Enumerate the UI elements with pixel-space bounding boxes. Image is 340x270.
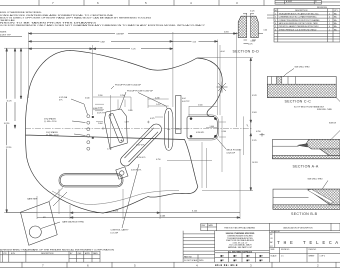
section C-C leader	[283, 69, 294, 78]
lower-left long rout	[59, 174, 123, 187]
title: THE TELECASTER	[277, 240, 340, 246]
section A-A top right text	[329, 123, 337, 125]
dimension: overall length (DIM REF)	[29, 33, 237, 35]
svg-text:7: 7	[52, 1, 54, 5]
svg-text:1: 1	[329, 20, 330, 22]
svg-text:2.500: 2.500	[198, 104, 203, 106]
svg-text:6: 6	[275, 29, 276, 31]
section C-C corner arrow	[336, 98, 340, 102]
svg-text:CORNERED BODY EL CU PAINT FINI: CORNERED BODY EL CU PAINT FINISH MILL	[279, 16, 317, 19]
svg-text:3.125: 3.125	[192, 211, 198, 213]
svg-text:3: 3	[275, 20, 276, 22]
svg-text:SHEET: SHEET	[309, 256, 316, 258]
svg-text:@ .430 = 2.150: @ .430 = 2.150	[44, 121, 56, 123]
section A-A leader	[329, 131, 340, 142]
svg-text:2: 2	[317, 264, 319, 268]
svg-text:12.780: 12.780	[6, 147, 12, 149]
title block approvals column	[274, 231, 276, 248]
dimension: left 6.170	[20, 48, 22, 99]
svg-text:5: 5	[134, 264, 136, 268]
svg-text:0.075: 0.075	[248, 44, 253, 46]
svg-text:SIZE DRILL THRU: SIZE DRILL THRU	[295, 67, 311, 69]
svg-text:REVISIONS: REVISIONS	[317, 7, 328, 9]
svg-text:GATE DIA HOLE THRU: GATE DIA HOLE THRU	[62, 221, 84, 224]
svg-text:0.375: 0.375	[150, 118, 155, 120]
svg-text:4: 4	[196, 264, 198, 268]
svg-text:NECK POCKET: NECK POCKET	[227, 150, 243, 152]
svg-text:SECTION A-A: SECTION A-A	[293, 164, 319, 168]
svg-text:6: 6	[87, 264, 89, 268]
revisions corner block	[275, 0, 340, 4]
control cavity channel (diagonal)	[121, 124, 162, 166]
svg-text:9.563: 9.563	[252, 112, 257, 114]
svg-text:SIZE DRILL THRU: SIZE DRILL THRU	[308, 179, 324, 181]
svg-text:5.073: 5.073	[113, 211, 119, 213]
dimension: right side height	[250, 58, 252, 191]
svg-text:LOC BP: LOC BP	[111, 233, 119, 235]
dimension: 6.847 top	[29, 41, 173, 43]
title block middle notes box	[215, 231, 270, 263]
dimension: 7.170 top	[29, 48, 173, 50]
dimension: 3.13 top	[173, 41, 218, 43]
string ferrules (6 holes)	[87, 115, 90, 151]
svg-text:5 EQ SPACES: 5 EQ SPACES	[46, 131, 59, 134]
svg-text:5: 5	[275, 26, 276, 28]
ferrule section marks	[92, 116, 94, 139]
svg-text:▩Ʊ: ▩Ʊ	[220, 255, 224, 258]
svg-text:DO NOT SCALE: DO NOT SCALE	[184, 259, 198, 262]
svg-text:6.578: 6.578	[252, 95, 257, 97]
svg-text:0.750: 0.750	[156, 159, 161, 161]
svg-text:1.477: 1.477	[125, 121, 130, 123]
section D-D hatched blocks	[238, 16, 258, 37]
svg-text:1.060: 1.060	[128, 110, 133, 112]
svg-text:6.847: 6.847	[101, 41, 106, 43]
svg-text:3.125: 3.125	[252, 140, 257, 142]
dimension: left 10.780	[14, 48, 16, 128]
dimension: bottom 1.063	[37, 217, 240, 219]
svg-text:APPD: APPD	[85, 252, 91, 255]
jack detail view (rotated square)	[21, 202, 58, 246]
svg-text:STRING FERRULE .145 ID STEEL N: STRING FERRULE .145 ID STEEL NI 6 REQD	[279, 29, 317, 31]
centerline symbol	[247, 125, 250, 128]
svg-text:PART NO: PART NO	[184, 256, 192, 259]
title block left table	[183, 231, 215, 263]
svg-text:L: L	[248, 126, 250, 128]
svg-text:THIS IS NOT AN OFFICIAL DRAWIN: THIS IS NOT AN OFFICIAL DRAWING	[224, 226, 256, 229]
trademark note	[0, 248, 115, 251]
svg-text:SECTION D-D: SECTION D-D	[233, 49, 260, 53]
zone ticks top	[39, 0, 264, 6]
left margin leader	[0, 36, 22, 38]
svg-text:0.04: 0.04	[182, 98, 186, 100]
svg-text:0.200 4PL: 0.200 4PL	[196, 132, 204, 134]
svg-text:6 PL: 6 PL	[59, 100, 63, 102]
svg-text:+0.04: +0.04	[220, 51, 225, 53]
svg-text:4: 4	[275, 23, 276, 25]
ferrule leader	[71, 99, 88, 136]
plus marks	[102, 121, 171, 131]
svg-text:▩Ʊ: ▩Ʊ	[233, 259, 237, 262]
svg-text:6: 6	[329, 26, 330, 28]
svg-text:DWG: DWG	[199, 260, 204, 262]
svg-text:SECTION B-B: SECTION B-B	[291, 212, 318, 216]
svg-text:4: 4	[190, 1, 192, 5]
svg-text:3.13: 3.13	[193, 41, 197, 43]
leader: neck pocket label	[216, 138, 226, 150]
svg-text:SIZE DRILL THRU: SIZE DRILL THRU	[317, 109, 333, 111]
svg-text:DATE: DATE	[208, 224, 213, 227]
extension lines right	[198, 58, 253, 191]
svg-text:MATERIAL: SEE PARTS LIST: MATERIAL: SEE PARTS LIST	[228, 246, 253, 249]
svg-text:0.125 DIA: 0.125 DIA	[59, 96, 68, 99]
svg-text:3: 3	[250, 264, 252, 268]
small dim lines center	[93, 97, 226, 188]
left margin note	[0, 32, 11, 37]
svg-text:0.840: 0.840	[98, 108, 103, 110]
svg-text:1.250: 1.250	[120, 95, 125, 97]
svg-text:0.250: 0.250	[256, 131, 261, 133]
svg-text:1.718: 1.718	[107, 148, 112, 150]
svg-text:7.170: 7.170	[131, 49, 136, 51]
section B-B leader	[322, 181, 328, 190]
section A-A left dim	[260, 133, 265, 137]
zone ticks bottom	[22, 262, 336, 267]
svg-text:■ƙ•■ ƙ■• ■ƙ•■: ■ƙ•■ ƙ■• ■ƙ•■	[215, 263, 238, 267]
title block right cells	[270, 248, 340, 263]
svg-text:DESCRIPTION: DESCRIPTION	[41, 253, 54, 255]
svg-text:BY: BY	[270, 234, 273, 236]
svg-text:10.313: 10.313	[252, 162, 258, 164]
leader: control cavity label	[122, 164, 139, 228]
svg-text:0.09 R TYP: 0.09 R TYP	[0, 35, 11, 37]
svg-text:JACK HOLE FERRULE CUP NI PL DR: JACK HOLE FERRULE CUP NI PL DRILL THRU	[279, 22, 319, 25]
svg-text:@ .430 = 2.150: @ .430 = 2.150	[46, 135, 58, 137]
parts list text	[275, 10, 339, 31]
zone numbers top	[52, 1, 238, 5]
svg-text:10.780: 10.780	[4, 123, 10, 125]
general notes text	[0, 12, 206, 27]
bottom strip small text cluster	[215, 263, 238, 267]
neck pickup rout	[165, 108, 173, 150]
parts list table	[274, 9, 340, 43]
svg-text:1: 1	[329, 23, 330, 25]
svg-text:DWG NO: DWG NO	[309, 249, 317, 251]
section A-A arrow dart	[298, 144, 308, 147]
dimension: bottom 5.073	[7, 212, 240, 214]
svg-text:0.44: 0.44	[264, 30, 268, 32]
extra center dim texts	[85, 98, 161, 161]
svg-text:TELECASTER BODY 2 PC ASH LT WT: TELECASTER BODY 2 PC ASH LT WT MILL SCL	[279, 12, 319, 15]
svg-text:ESS OTHERWISE SPECIFIED:: ESS OTHERWISE SPECIFIED:	[0, 12, 43, 14]
svg-text:5 EQ SPACES: 5 EQ SPACES	[44, 118, 57, 121]
pickup pocket leader labels	[115, 84, 154, 92]
svg-text:0.625 DP: 0.625 DP	[227, 152, 236, 154]
sheet top border line	[0, 5, 340, 7]
section A-A pocket floor line	[273, 145, 299, 147]
svg-text:GATE REF: GATE REF	[27, 198, 38, 201]
extension lines left	[4, 48, 37, 213]
svg-text:DIM REF: DIM REF	[117, 33, 125, 35]
svg-text:1 OF 2: 1 OF 2	[320, 256, 326, 258]
extension tick bottom-left	[69, 205, 71, 219]
svg-text:SCALE: SCALE	[271, 255, 278, 258]
pickup pocket leaders	[111, 86, 167, 110]
pivot cross mark	[217, 82, 228, 93]
bridge pickup rout (slanted)	[109, 113, 123, 142]
svg-text:BODY IS DIRECT OPPOSITE OF RIG: BODY IS DIRECT OPPOSITE OF RIGHT HAND LE…	[0, 17, 152, 20]
svg-text:0.675 TYP: 0.675 TYP	[97, 112, 106, 114]
jack detail leader lines	[41, 188, 67, 229]
svg-text:7: 7	[42, 264, 44, 268]
misc small dimensions center	[98, 51, 242, 235]
svg-text:G IS FOR REFERENCE ONLY AND DO: G IS FOR REFERENCE ONLY AND DOES NOT GUA…	[0, 24, 206, 27]
svg-text:5: 5	[145, 1, 147, 5]
svg-text:SIZE: SIZE	[271, 249, 276, 251]
zone numbers bottom	[42, 264, 319, 268]
svg-text:PICKUP POCKET 0.687 DP: PICKUP POCKET 0.687 DP	[127, 90, 154, 92]
jack detail labels	[27, 198, 84, 224]
extra bridge dim lines	[95, 104, 104, 121]
svg-text:1: 1	[329, 29, 330, 31]
svg-text:0.540: 0.540	[85, 98, 90, 100]
bridge pickup screw crosses	[110, 114, 123, 142]
svg-text:0.094: 0.094	[224, 32, 229, 34]
bridge plate outline	[104, 109, 127, 148]
ferrule labels	[44, 96, 68, 137]
belly cut contour	[52, 190, 179, 204]
svg-text:3: 3	[236, 1, 238, 5]
svg-text:PICKUP/CL GASKET ITEM BRUSH ST: PICKUP/CL GASKET ITEM BRUSH STRG THRU	[279, 25, 319, 28]
section D-D label	[233, 49, 260, 53]
svg-text:SIZE DR: SIZE DR	[329, 123, 337, 125]
parts table leaders	[267, 15, 274, 18]
svg-text:6.170: 6.170	[7, 101, 12, 103]
svg-text:SECTION C-C: SECTION C-C	[285, 100, 312, 104]
revision history table	[0, 251, 100, 262]
svg-text:CONTROL CAVITY: CONTROL CAVITY	[111, 229, 130, 232]
svg-text:▩Ʊ: ▩Ʊ	[246, 255, 250, 258]
svg-text:FSCM NO: FSCM NO	[281, 249, 290, 251]
title block top row	[201, 223, 340, 230]
svg-text:DATE: DATE	[93, 252, 98, 255]
svg-text:2.200: 2.200	[98, 95, 103, 97]
svg-text:CANCELLATION OF DESCRIPTION: CANCELLATION OF DESCRIPTION	[283, 226, 313, 229]
svg-text:CONNECTING WIRING PICKUP ROUT: CONNECTING WIRING PICKUP ROUT CHANNEL	[279, 19, 320, 22]
svg-text:ALL MACHINED SURFACES: ALL MACHINED SURFACES	[228, 250, 253, 253]
svg-text:▩Ʊ: ▩Ʊ	[220, 259, 224, 262]
neck pocket	[187, 115, 219, 140]
svg-text:PICKUP POCKET 0.640 DP: PICKUP POCKET 0.640 DP	[115, 84, 142, 86]
svg-text:SIDES: SIDES	[0, 32, 7, 34]
truss rod channel	[176, 96, 181, 134]
svg-text:1: 1	[329, 13, 330, 15]
svg-text:1.437 4 PL: 1.437 4 PL	[136, 145, 145, 147]
section C-C bar	[267, 77, 336, 98]
left dim labels	[3, 99, 19, 149]
svg-text:A REGISTERED TRADEMARK OF THE: A REGISTERED TRADEMARK OF THE FENDER MUS…	[0, 248, 115, 251]
section D-D dims	[233, 13, 263, 44]
neck pocket screw holes	[190, 117, 217, 137]
svg-text:▩Ʊ: ▩Ʊ	[259, 255, 263, 258]
svg-text:▩Ʊ: ▩Ʊ	[246, 259, 250, 262]
svg-text:0.125: 0.125	[250, 10, 255, 12]
svg-text:AP: AP	[270, 241, 273, 244]
section B-B label	[291, 212, 318, 216]
svg-text:0.868: 0.868	[93, 108, 98, 110]
extension lines bottom	[37, 150, 240, 219]
jack rout square (small, in body)	[116, 167, 128, 179]
title block right: noted row	[270, 232, 340, 234]
svg-text:CK: CK	[270, 238, 273, 240]
svg-text:DESCRIPTION: DESCRIPTION	[295, 10, 308, 12]
svg-text:0.03 TYP: 0.03 TYP	[182, 101, 190, 103]
svg-text:SLOT P NECK POCKET AREA ONLY: SLOT P NECK POCKET AREA ONLY	[294, 105, 325, 108]
svg-text:1.063: 1.063	[160, 216, 166, 218]
sheet bottom border lines	[0, 262, 340, 267]
svg-text:A 10/02: A 10/02	[286, 0, 292, 3]
body outline	[25, 50, 222, 213]
section B-B pocket floor line	[273, 197, 309, 199]
svg-text:▩Ʊ: ▩Ʊ	[233, 255, 237, 258]
section A-A label	[293, 164, 319, 168]
centerline	[25, 127, 252, 129]
extension lines top	[29, 32, 237, 150]
section A-A bar	[273, 139, 340, 158]
svg-text:2: 2	[275, 17, 276, 19]
svg-text:4: 4	[329, 17, 330, 19]
section C-C label	[285, 100, 325, 109]
svg-text:0.093 R 2 PL: 0.093 R 2 PL	[131, 170, 142, 172]
svg-text:2.064: 2.064	[98, 123, 103, 125]
svg-text:0.250: 0.250	[251, 40, 256, 42]
svg-text:1.417: 1.417	[156, 104, 161, 106]
section B-B bar	[273, 189, 340, 209]
svg-text:6: 6	[97, 1, 99, 5]
svg-text:▩Ʊ: ▩Ʊ	[259, 259, 263, 262]
svg-text:THE TELECA: THE TELECA	[277, 240, 340, 246]
svg-text:NOTED BY: NOTED BY	[271, 231, 281, 233]
dimension: left overall width	[6, 48, 8, 213]
svg-text:1:1: 1:1	[281, 256, 284, 258]
svg-text:0.250 4 PL: 0.250 4 PL	[137, 157, 146, 159]
svg-text:1: 1	[275, 13, 276, 15]
